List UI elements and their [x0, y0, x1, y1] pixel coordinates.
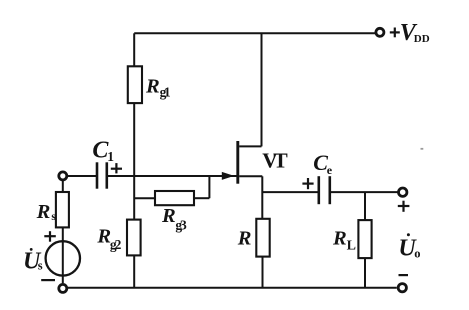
- svg-text:VT: VT: [262, 149, 288, 173]
- svg-text:o: o: [414, 246, 420, 260]
- svg-text:R: R: [237, 227, 252, 249]
- svg-text:L: L: [347, 238, 356, 253]
- svg-text:R: R: [161, 205, 176, 227]
- svg-text:R: R: [96, 226, 111, 248]
- svg-text:s: s: [38, 259, 43, 273]
- svg-text:g1: g1: [160, 85, 171, 100]
- svg-text:g2: g2: [110, 237, 122, 252]
- svg-text:DD: DD: [414, 33, 430, 45]
- svg-text:R: R: [36, 201, 51, 223]
- svg-text:g3: g3: [175, 217, 187, 232]
- svg-text:e: e: [327, 163, 333, 177]
- svg-text:s: s: [51, 211, 56, 223]
- svg-text:R: R: [332, 227, 347, 249]
- svg-text:1: 1: [107, 149, 114, 164]
- svg-text:R: R: [145, 76, 160, 98]
